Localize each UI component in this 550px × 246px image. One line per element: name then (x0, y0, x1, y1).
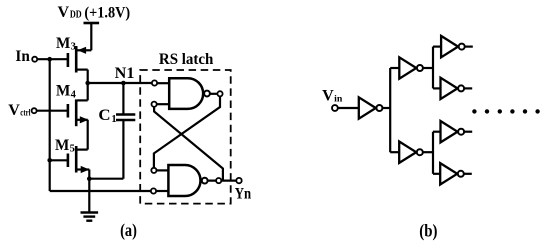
junction dot In node (47, 57, 52, 62)
label M4 (56, 83, 77, 101)
wire rail 2 (432, 47, 434, 89)
wire Vctrl to M4 gate (37, 110, 68, 112)
inverter U3 (stage 1) (359, 97, 383, 118)
svg-text:(b): (b) (419, 221, 437, 242)
label M3 (56, 35, 76, 53)
inverter U9 (stage 3 fourth) (440, 163, 464, 184)
output terminal Yn (236, 178, 241, 183)
transistor M3 (PMOS) (68, 46, 91, 83)
net label VDD (+1.8V) (58, 4, 131, 21)
wire top gate output (210, 93, 218, 95)
nand gate U1 (top) (157, 78, 210, 109)
inverter U7 (stage 2 lower) (399, 142, 423, 163)
wire node N1 horizontal (88, 82, 152, 84)
wire rail 1 (389, 68, 391, 152)
input terminal Vin (332, 105, 338, 111)
wire U6 output stub (464, 87, 472, 89)
wire C1 bottom to ground node (89, 120, 123, 179)
wire rail2 to U5 (433, 45, 441, 47)
bottom gate output node circle (216, 178, 221, 183)
RS latch dashed box (140, 70, 231, 204)
wire N1 down to C1 (122, 83, 124, 115)
label Vctrl (8, 102, 31, 119)
wire to ground (88, 179, 90, 212)
ground (81, 213, 99, 221)
svg-text:N1: N1 (115, 65, 135, 82)
wire bottom gate output to Yn (208, 180, 237, 182)
svg-text:(+1.8V): (+1.8V) (84, 4, 130, 21)
label C1 (98, 107, 116, 125)
label Yn (235, 186, 252, 203)
label N1 (115, 65, 135, 82)
svg-text:C: C (98, 107, 110, 124)
bottom gate upper input terminal circle (151, 168, 156, 173)
inverter U5 (stage 3 top) (441, 36, 465, 57)
svg-text:3: 3 (71, 42, 76, 53)
wire rail3 to U8 (433, 131, 441, 133)
input terminal Vctrl (32, 108, 37, 113)
svg-text:5: 5 (70, 144, 75, 155)
label In (15, 48, 30, 65)
nand gate U2 (bottom) (156, 165, 208, 196)
wire cross-couple Q to bottom gate input (154, 96, 220, 167)
wire U9 output stub (464, 173, 472, 175)
svg-text:V: V (322, 88, 334, 105)
label Vin (322, 88, 343, 105)
wire rail2 to U6 (433, 87, 441, 89)
svg-text:4: 4 (71, 89, 77, 100)
wire Vin to inverter U3 (338, 107, 359, 109)
bottom gate lower input terminal circle (151, 188, 156, 193)
input terminal In (32, 57, 37, 62)
wire In to M3 gate (37, 58, 68, 60)
transistor M5 (NMOS) (68, 146, 89, 179)
svg-text:1: 1 (111, 114, 116, 125)
svg-text:In: In (15, 48, 30, 65)
label (a) (120, 220, 137, 241)
transistor M4 (NMOS) (68, 83, 89, 150)
wire bottom rail to latch S input (50, 190, 151, 192)
junction dot M3/M4 drains (node N1) (85, 81, 90, 86)
junction dot In / M5 gate (47, 158, 52, 163)
wire M5 gate lead (50, 159, 68, 161)
svg-text:DD: DD (70, 10, 82, 21)
svg-text:RS latch: RS latch (159, 51, 214, 68)
svg-text:V: V (58, 4, 70, 21)
wire U3 out to rail 1 (382, 107, 390, 109)
inverter U4 (stage 2 upper) (399, 57, 423, 78)
svg-text:Yn: Yn (235, 186, 252, 203)
label (b) (419, 221, 437, 242)
junction dot N1 / C1 (121, 81, 126, 86)
top gate lower input terminal circle (152, 102, 157, 107)
power VDD rail symbol (84, 23, 100, 50)
top gate output node circle (217, 91, 222, 96)
svg-text:M: M (56, 83, 70, 100)
svg-text:ctrl: ctrl (20, 109, 31, 119)
wire rail1 to U7 (390, 151, 399, 153)
svg-text:(a): (a) (120, 220, 137, 241)
wire U4 out to rail 2 (423, 67, 433, 69)
label RS latch (159, 51, 214, 68)
svg-text:M: M (56, 35, 70, 52)
wire cross-couple Qbar to top gate input (154, 107, 223, 181)
capacitor C1 (116, 115, 135, 121)
svg-text:in: in (334, 94, 343, 104)
wire rail1 to U4 (390, 67, 399, 69)
wire In vertical down to bottom rail (49, 59, 51, 191)
wire rail 3 (432, 132, 434, 174)
wire U8 output stub (464, 131, 472, 133)
label M5 (55, 137, 75, 155)
wire U7 out to rail 3 (423, 151, 433, 153)
wire rail3 to U9 (433, 173, 440, 175)
wire U5 output stub (465, 45, 473, 47)
inverter U6 (stage 3 second) (441, 78, 465, 99)
inverter U8 (stage 3 third) (441, 121, 465, 142)
ellipsis dots (472, 109, 540, 113)
svg-text:M: M (55, 137, 69, 154)
svg-text:V: V (8, 102, 20, 119)
junction dot M5 source / ground (87, 176, 92, 181)
node R input terminal (top gate upper input) (152, 80, 157, 85)
